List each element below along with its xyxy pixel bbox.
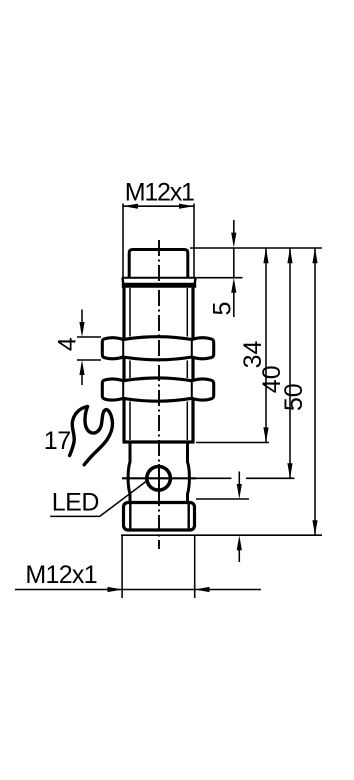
extension line 4 dim top	[77, 336, 101, 338]
svg-text:4: 4	[53, 337, 81, 351]
svg-text:LED: LED	[52, 489, 99, 517]
LED leader line	[50, 482, 146, 517]
arrowhead top dim right	[179, 204, 194, 209]
connector shaft right edge	[188, 444, 190, 502]
svg-text:M12x1: M12x1	[25, 561, 97, 589]
extension line bottom right	[194, 536, 196, 598]
sensor flange sides	[123, 278, 196, 285]
arrowhead top dim left	[123, 204, 138, 209]
dimension line M12x1 bottom	[15, 589, 261, 591]
svg-text:34: 34	[239, 341, 267, 369]
LED centerline reference (40 dim bottom)	[196, 477, 232, 479]
sensor head cap	[129, 250, 188, 278]
connector nut	[124, 503, 195, 531]
arrowhead 50 bottom	[312, 520, 317, 535]
arrowhead 40 top	[287, 248, 292, 263]
svg-text:17: 17	[44, 427, 71, 455]
flange reference line (5 dim bottom)	[197, 277, 243, 279]
arrowhead 4 bottom	[79, 360, 84, 375]
arrowhead bottom dim left	[108, 587, 123, 592]
barrel left edge	[122, 285, 125, 442]
arrowhead 4 top	[79, 322, 84, 337]
dimension line 6	[238, 472, 240, 487]
svg-text:50: 50	[280, 383, 308, 411]
extension line bottom left	[121, 536, 123, 598]
dimension line 50	[314, 248, 316, 535]
LED horizontal centerline through circle	[122, 477, 196, 479]
svg-text:M12x1: M12x1	[125, 179, 194, 207]
arrowhead 40 bottom	[287, 463, 292, 478]
hex nut 1	[102, 337, 213, 360]
dimension line 5	[233, 220, 235, 235]
extension line 4 dim bottom	[77, 359, 101, 361]
extension line top right	[193, 204, 195, 278]
dimension line 4	[81, 310, 83, 325]
arrowhead 50 top	[312, 248, 317, 263]
dimension line 34	[265, 248, 267, 442]
LED indicator circle	[147, 467, 171, 491]
sensor flange bottom edge	[122, 283, 196, 288]
arrowhead 6 top	[237, 484, 242, 499]
thread minor line right	[186, 288, 188, 440]
connector nut top reference line (6 dim top)	[196, 498, 249, 500]
thread minor line left	[129, 288, 131, 440]
arrowhead 34 top	[263, 248, 268, 263]
thread-end reference line (34 dim bottom)	[196, 442, 269, 444]
wrench symbol (spanner size 17)	[70, 407, 113, 465]
hex nut 2	[102, 378, 213, 401]
arrowhead 5 bottom	[231, 278, 236, 293]
sensor flange top edge	[122, 277, 196, 279]
connector shaft left edge	[128, 444, 130, 502]
bottom reference line (sensor bottom)	[121, 534, 322, 536]
arrowhead 5 top	[231, 233, 236, 248]
svg-text:5: 5	[209, 302, 237, 316]
arrowhead 6 bottom	[237, 535, 242, 550]
LED centerline reference right part	[246, 477, 295, 479]
extension line top left	[122, 204, 124, 285]
top reference line (sensor top)	[190, 247, 322, 249]
vertical centerline	[158, 240, 160, 549]
arrowhead 34 bottom	[263, 427, 268, 442]
LED vertical centerline solid segment	[158, 464, 160, 492]
dimension line M12x1 top	[123, 205, 194, 207]
dimension line 40	[289, 248, 291, 478]
arrowhead bottom dim right	[195, 587, 210, 592]
thread end line	[123, 440, 195, 443]
barrel right edge	[191, 285, 194, 442]
